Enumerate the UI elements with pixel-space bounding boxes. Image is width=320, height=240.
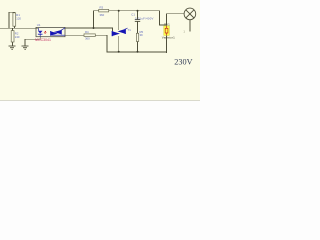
svg-text:0.01uF/400V: 0.01uF/400V <box>135 16 154 20</box>
wire: top rail right of R3 <box>109 10 160 12</box>
resistor R5 (snubber) <box>136 33 138 41</box>
junction node B (rail/MT2) <box>118 10 120 12</box>
svg-text:RV1: RV1 <box>164 22 170 26</box>
svg-text:T1: T1 <box>128 28 132 32</box>
wire: R4 to bottom rail <box>95 35 167 52</box>
wire: snubber top lead <box>137 11 139 20</box>
wire: rail corner down to RV1 node <box>160 11 167 25</box>
label R5 <box>140 30 144 37</box>
junction node A (R3/pin6) <box>93 27 95 29</box>
label R3 <box>100 6 105 17</box>
wire: R2 bottom lead <box>12 42 14 46</box>
LED inside U1 <box>38 28 43 37</box>
resistor R3 <box>99 9 109 12</box>
wire: U1 pin4 to R4 <box>65 34 84 36</box>
canvas bottom edge <box>0 100 200 101</box>
resistor R2 <box>11 31 14 42</box>
wire: C1 to R5 lead <box>137 22 139 34</box>
varistor RV1 (highlighted) <box>164 26 170 35</box>
svg-text:230V: 230V <box>174 58 192 67</box>
label R4 <box>85 30 90 40</box>
capacitor C1 <box>135 20 140 22</box>
label R2 <box>15 32 20 39</box>
svg-text:360: 360 <box>85 37 90 41</box>
wire: R1 bottom lead <box>13 26 15 28</box>
junction node C (rail/C1) <box>137 10 139 12</box>
wire: left input rail <box>0 27 39 29</box>
resistor R4 <box>84 34 95 37</box>
svg-text:39: 39 <box>140 33 144 37</box>
wire: step up to R1 top <box>9 12 14 28</box>
junction node D (bottom/MT1) <box>118 51 120 53</box>
triac T1 <box>112 28 127 36</box>
wire: triac MT2 drop <box>118 11 120 30</box>
label C1 <box>131 12 153 20</box>
ground (opto pin2) <box>22 46 29 49</box>
optocoupler U1 box <box>36 27 65 36</box>
wire: lamp bottom terminal <box>189 20 191 32</box>
svg-text:240: 240 <box>15 35 20 39</box>
svg-text:R3: R3 <box>100 6 104 10</box>
wire: R2 top lead <box>12 28 14 30</box>
svg-text:360: 360 <box>100 13 105 17</box>
wire: U1 pin6 to triac <box>65 28 112 31</box>
LED arrows (red) <box>44 31 47 34</box>
junction node E (bottom/R5) <box>137 51 139 53</box>
svg-text:Varistor1: Varistor1 <box>162 35 175 39</box>
wire: R5 to bottom rail <box>137 42 139 52</box>
wire: R3 branch vertical <box>94 11 99 28</box>
ground (below R2) <box>9 46 16 49</box>
wire: RV1 top lead and lamp wire <box>167 14 185 26</box>
svg-text:120: 120 <box>16 16 21 20</box>
label R1 <box>16 13 21 20</box>
lamp <box>184 8 196 20</box>
resistor R1 <box>13 13 16 26</box>
svg-text:U1: U1 <box>37 23 41 27</box>
svg-text:R4: R4 <box>85 30 89 34</box>
wire: triac MT1 drop <box>118 36 120 52</box>
wire: opto pin2 return to ground <box>25 35 40 46</box>
phototriac inside U1 <box>51 28 65 36</box>
svg-text:MOC3041: MOC3041 <box>35 38 51 42</box>
canvas background <box>0 0 200 121</box>
wire: RV1 bottom lead <box>166 35 168 53</box>
